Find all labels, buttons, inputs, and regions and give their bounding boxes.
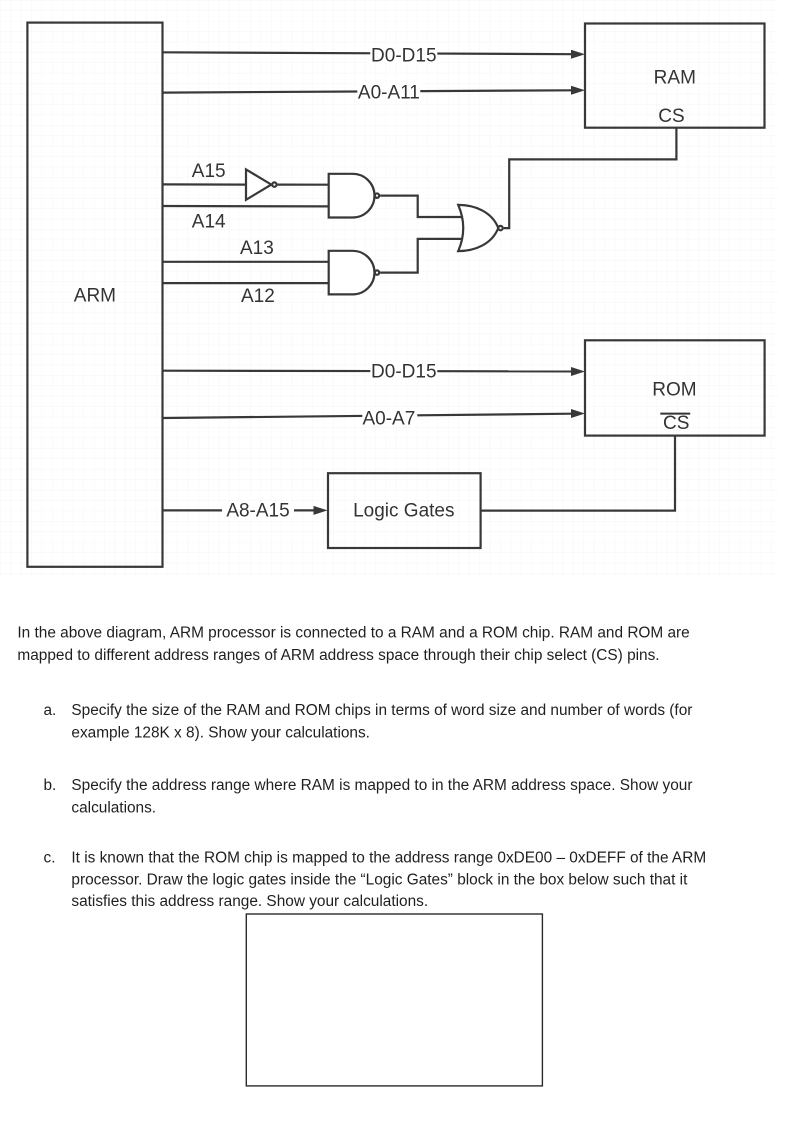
svg-text:A15: A15: [192, 161, 226, 182]
wire Logic Gates output to ROM CS: [481, 436, 675, 511]
svg-text:calculations.: calculations.: [71, 799, 156, 816]
svg-text:A0-A11: A0-A11: [358, 82, 420, 103]
svg-text:It is known that the ROM chip: It is known that the ROM chip is mapped …: [71, 849, 706, 866]
svg-text:ROM: ROM: [652, 379, 696, 400]
svg-text:Specify the size of the RAM an: Specify the size of the RAM and ROM chip…: [71, 702, 692, 719]
svg-text:a.: a.: [44, 702, 57, 719]
svg-text:CS: CS: [663, 413, 689, 434]
wire D0-D15 bus ARM to RAM: [163, 44, 586, 67]
wire NAND2 output to NOR input: [380, 239, 461, 273]
wire NAND1 output to NOR input: [380, 196, 462, 217]
svg-text:c.: c.: [44, 849, 56, 866]
list item b: [44, 777, 693, 816]
svg-text:satisfies this address range.: satisfies this address range. Show your …: [71, 893, 428, 910]
svg-text:RAM: RAM: [654, 68, 696, 89]
svg-text:CS: CS: [658, 106, 684, 127]
wire A14: [163, 206, 329, 232]
svg-text:A13: A13: [240, 238, 274, 259]
svg-text:example 128K x 8). Show your c: example 128K x 8). Show your calculation…: [71, 725, 370, 742]
list item c: [44, 849, 707, 910]
ROM block: [585, 340, 765, 435]
svg-text:D0-D15: D0-D15: [371, 46, 436, 67]
svg-text:D0-D15: D0-D15: [371, 362, 436, 383]
RAM block: [585, 24, 765, 128]
svg-text:ARM: ARM: [74, 286, 116, 307]
list item a: [44, 702, 693, 741]
NAND gate 2 (A13, A12): [329, 251, 379, 295]
answer box: [246, 914, 542, 1086]
wire NOR output to RAM CS: [504, 128, 677, 228]
svg-text:Specify the address range wher: Specify the address range where RAM is m…: [71, 777, 692, 794]
paragraph text: [17, 625, 689, 665]
wire A13: [163, 238, 329, 262]
svg-text:processor. Draw the logic gate: processor. Draw the logic gates inside t…: [71, 871, 688, 888]
wire A12: [163, 283, 329, 307]
NAND gate 1 (A15', A14): [329, 174, 379, 218]
wire inverter output to NAND1 input: [278, 184, 329, 186]
svg-text:A0-A7: A0-A7: [362, 408, 415, 429]
svg-text:A12: A12: [241, 286, 275, 307]
svg-text:Logic Gates: Logic Gates: [353, 500, 454, 521]
svg-text:A8-A15: A8-A15: [226, 500, 289, 521]
wire A15: [163, 161, 247, 185]
ARM processor block U1: [27, 23, 162, 567]
svg-text:b.: b.: [44, 777, 57, 794]
svg-text:In the above diagram, ARM proc: In the above diagram, ARM processor is c…: [17, 625, 689, 642]
wire A8-A15 bus ARM to Logic Gates: [163, 500, 328, 521]
wire D0-D15 bus ARM to ROM: [163, 362, 586, 383]
svg-text:mapped to different address ra: mapped to different address ranges of AR…: [17, 647, 659, 664]
Logic Gates block: [328, 473, 481, 548]
wire A0-A7 bus ARM to ROM: [163, 407, 586, 429]
inverter (NOT gate) on A15: [246, 169, 277, 199]
NOR gate: [458, 205, 502, 251]
wire A0-A11 bus ARM to RAM: [163, 82, 586, 103]
svg-text:A14: A14: [192, 211, 226, 232]
